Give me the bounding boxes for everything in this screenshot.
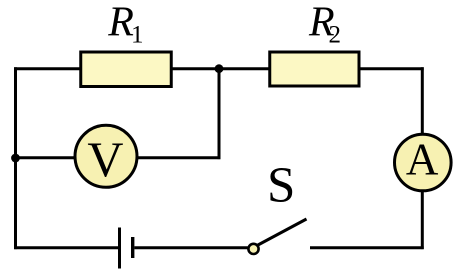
svg-text:A: A: [406, 134, 439, 184]
wire right vertical upper: [421, 67, 424, 134]
svg-text:2: 2: [329, 21, 342, 48]
battery short plate: [131, 237, 134, 258]
wire switch to bottom-right corner: [310, 246, 424, 249]
wire node to R2: [219, 67, 269, 70]
voltmeter V: [75, 125, 137, 187]
node junction left: [11, 154, 20, 163]
wire voltmeter to riser: [136, 156, 220, 159]
svg-text:1: 1: [131, 21, 144, 48]
wire bottom-left horizontal: [14, 246, 118, 249]
switch blade: [257, 219, 307, 246]
wire right vertical lower: [421, 191, 424, 249]
resistor R1: [81, 52, 172, 87]
wire left vertical: [14, 67, 17, 249]
wire top-left horizontal: [14, 67, 81, 70]
wire node to voltmeter: [16, 156, 77, 159]
ammeter A: [395, 134, 452, 191]
svg-text:S: S: [267, 158, 295, 214]
battery long plate: [118, 228, 121, 269]
resistor R2: [270, 52, 359, 86]
svg-text:V: V: [87, 131, 123, 187]
wire battery to switch: [134, 246, 247, 249]
svg-text:R: R: [107, 0, 134, 46]
wire R2 to right corner: [360, 67, 424, 70]
switch S pivot contact: [248, 244, 258, 254]
wire riser vertical to node: [218, 69, 221, 159]
wire R1 to node: [172, 67, 219, 70]
node junction top: [215, 64, 224, 73]
